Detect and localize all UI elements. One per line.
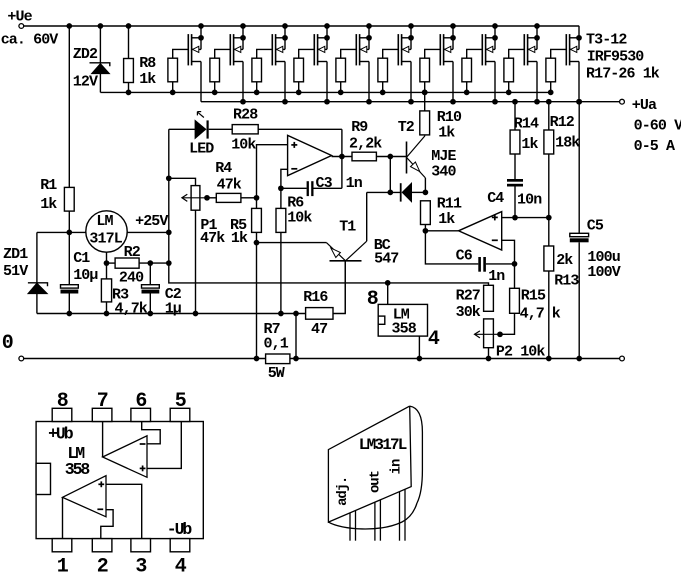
junction [366,99,372,105]
svg-text:R16: R16 [303,289,328,306]
junction [492,99,498,105]
junction [254,240,260,246]
pin stub bottom 1 [52,539,72,552]
svg-text:2: 2 [97,555,108,575]
wire +Ua rail [201,101,620,103]
svg-text:1k: 1k [521,136,538,153]
svg-text:C1: C1 [73,250,90,267]
gate resistor R22 [383,49,399,58]
svg-text:R28: R28 [233,107,258,124]
resistor R8 [128,26,130,59]
svg-text:47k: 47k [200,230,225,247]
junction [512,261,518,267]
junction [576,99,582,105]
junction [254,195,260,201]
junction [534,23,540,29]
junction [104,260,110,266]
MOSFET T6 IRF9530 [313,34,315,65]
node in [66,230,72,236]
resistor R11 [421,201,431,225]
junction [576,99,582,105]
regulator U2 LM317L [86,211,127,252]
wire pin 1 to output [62,497,64,538]
wire top rail +Ue [24,25,580,27]
junction [380,90,386,96]
wire inverting input [281,169,288,208]
gate resistor R24 [467,49,483,58]
resistor R3 [101,279,111,302]
potentiometer P1 [169,178,196,185]
svg-text:10n: 10n [517,191,542,208]
TO-92 right bulge [410,406,423,503]
wire pin 3 to noninverting [106,484,142,538]
svg-text:R15: R15 [521,288,546,305]
junction [546,215,552,221]
junction [66,23,72,29]
junction [293,311,299,317]
junction [282,35,288,41]
junction [546,99,552,105]
svg-text:0-60 V: 0-60 V [634,117,681,134]
capacitor C3 [281,187,307,189]
svg-text:358: 358 [65,460,91,479]
op-amp U1b [425,230,458,232]
wire pin 4 [418,336,420,358]
gate resistor R26 [551,49,567,58]
svg-text:3: 3 [135,555,146,575]
junction [296,90,302,96]
svg-text:358: 358 [392,321,417,338]
junction [512,215,518,221]
junction [98,23,104,29]
svg-text:R12: R12 [550,114,575,131]
op-amp A (pins 7,6,5) [103,436,147,478]
resistor R7 [266,354,290,364]
wire ground rail left [24,358,266,360]
transistor T1 BC547 [330,260,362,262]
svg-text:7: 7 [97,390,108,413]
junction [417,356,423,362]
pin stub bottom 4 [170,539,190,552]
junction [166,175,172,181]
wire sense rail [37,313,306,315]
junction [324,35,330,41]
wire to T1 collector node [389,157,391,193]
svg-text:1µ: 1µ [165,300,182,317]
junction [408,23,414,29]
IC package LM358 DIP-8 body [36,422,203,539]
junction [126,90,132,96]
junction [324,23,330,29]
node +25V [166,230,172,236]
capacitor C6 [425,231,478,264]
resistor R9 [352,152,376,161]
svg-text:100V: 100V [587,264,620,281]
svg-text:1n: 1n [346,175,363,192]
zener ZD1 [37,231,69,233]
terminal 0 [19,356,24,361]
junction [282,23,288,29]
svg-text:T3-12: T3-12 [586,31,627,48]
junction [147,311,153,317]
terminal 0 output [620,356,625,361]
transistor T2 MJE340 [406,142,408,174]
junction [282,99,288,105]
svg-text:8: 8 [57,390,68,413]
svg-text:4: 4 [428,328,440,351]
wire pin 2 to inverting [101,510,113,539]
svg-text:in: in [389,459,405,474]
junction [548,90,554,96]
wire noninverting input [257,145,288,209]
MOSFET T12 IRF9530 [565,34,567,65]
svg-text:k: k [552,306,561,323]
svg-text:5: 5 [175,390,186,413]
junction [278,311,284,317]
svg-text:1n: 1n [488,268,505,285]
resistor R4 [207,197,216,199]
junction [423,228,429,234]
junction [240,35,246,41]
junction [254,90,260,96]
wire pin 6 to inverting [142,422,161,444]
wire noninverting input row [502,217,549,219]
svg-text:R17-26 1k: R17-26 1k [586,65,660,82]
junction [339,154,345,160]
svg-text:10k: 10k [287,210,312,227]
capacitor C1 [68,232,70,284]
wire gate rail [100,91,550,93]
junction [492,35,498,41]
resistor R6 [276,208,286,232]
MOSFET T3 IRF9530 [187,34,189,65]
wire T1 base row [257,242,327,244]
MOSFET T4 IRF9530 [229,34,231,65]
junction [204,195,210,201]
svg-text:1k: 1k [139,71,156,88]
resistor R1 [64,187,74,211]
pin stub top 8 [52,408,72,421]
resistor R15 [514,264,516,288]
MOSFET T8 IRF9530 [397,34,399,65]
gate resistor R21 [341,49,357,58]
junction [534,35,540,41]
svg-text:30k: 30k [456,304,481,321]
capacitor C4 [507,179,523,182]
resistor R13 [548,218,550,246]
junction [506,90,512,96]
junction [408,99,414,105]
junction [408,35,414,41]
op-amp B (pins 1,2,3) [63,476,107,517]
TO-92 pin 3 [399,492,401,541]
MOSFET T5 IRF9530 [271,34,273,65]
junction [338,90,344,96]
svg-text:51V: 51V [3,263,28,280]
svg-text:4,7: 4,7 [520,306,544,323]
wire LM317 out [127,231,169,233]
terminal +Ua [620,99,625,104]
wire LM317 in [69,231,86,233]
junction [193,311,199,317]
svg-text:ZD2: ZD2 [73,46,98,63]
MOSFET T7 IRF9530 [355,34,357,65]
svg-text:R9: R9 [351,119,368,136]
pin stub top 5 [170,408,190,421]
svg-text:T1: T1 [339,219,356,236]
TO-92 pin 1 [349,513,351,541]
gate resistor R17 [173,49,189,58]
resistor R10 [424,92,426,111]
terminal +Ue [19,24,24,29]
svg-text:5W: 5W [268,365,285,382]
svg-text:1k: 1k [231,230,248,247]
svg-text:R8: R8 [139,55,156,72]
resistor R5 [252,208,262,232]
MOSFET T9 IRF9530 [439,34,441,65]
svg-text:10µ: 10µ [73,267,98,284]
junction [492,23,498,29]
svg-text:4: 4 [175,555,187,575]
svg-text:240: 240 [119,270,144,287]
junction [450,23,456,29]
wire LM317 adj [106,252,108,279]
svg-text:R1: R1 [40,177,57,194]
svg-text:18k: 18k [555,135,580,152]
svg-text:adj.: adj. [335,477,351,506]
svg-text:340: 340 [431,164,456,181]
wire R5 to ground rail [256,232,258,358]
svg-text:8: 8 [367,288,378,311]
junction [486,356,492,362]
svg-text:R4: R4 [215,160,232,177]
resistor R27 [484,285,494,311]
svg-text:IRF9530: IRF9530 [587,48,645,65]
zener ZD2 [99,26,101,63]
pin stub top 6 [131,408,151,421]
gate resistor R18 [215,49,231,58]
junction [366,23,372,29]
TO-92 pin 2 [374,502,376,541]
TO-92 belly [328,503,417,529]
junction [576,35,582,41]
svg-text:C4: C4 [487,190,504,207]
junction [423,190,429,196]
junction [450,99,456,105]
svg-text:317L: 317L [89,230,122,247]
wire pin 8 [387,283,389,305]
svg-text:547: 547 [374,251,398,268]
svg-text:1k: 1k [40,196,57,213]
svg-text:+Ue: +Ue [7,8,32,25]
junction [366,35,372,41]
junction [198,23,204,29]
pin stub bottom 2 [92,539,112,552]
capacitor C5 [578,102,580,234]
resistor R16 [306,308,333,320]
junction [324,99,330,105]
junction [576,356,582,362]
svg-text:47k: 47k [217,177,242,194]
svg-text:0,1: 0,1 [264,336,289,353]
junction [293,356,299,362]
gate resistor R19 [257,49,273,58]
svg-text:6: 6 [135,390,146,413]
IC U1 LM358 block [378,304,427,336]
resistor R2 [107,262,116,264]
svg-text:4,7k: 4,7k [115,300,148,317]
wire pin 5 to noninverting [147,422,181,469]
junction [387,154,393,160]
svg-text:C6: C6 [456,248,473,265]
junction [104,311,110,317]
junction [166,260,172,266]
junction [464,90,470,96]
pin stub bottom 3 [131,539,151,552]
svg-text:R27: R27 [456,288,480,305]
junction [534,99,540,105]
LED [169,128,195,130]
MOSFET T10 IRF9530 [481,34,483,65]
wire op-amp output [332,156,352,158]
op-amp U1a [288,135,332,175]
svg-text:LED: LED [189,141,214,158]
junction [497,331,503,337]
junction [387,190,393,196]
svg-text:T2: T2 [398,119,415,136]
junction [126,23,132,29]
junction [66,311,72,317]
IC package LM317L TO-92 face [328,406,411,522]
svg-text:LM317L: LM317L [359,436,407,454]
MOSFET T11 IRF9530 [523,34,525,65]
potentiometer P2 [484,319,494,348]
svg-text:0-5 A: 0-5 A [634,138,675,155]
junction [198,35,204,41]
resistor R12 [548,102,550,130]
junction [170,90,176,96]
junction [147,260,153,266]
resistor R28 [232,125,258,134]
junction [546,356,552,362]
svg-text:ZD1: ZD1 [3,246,28,263]
svg-text:1k: 1k [438,211,455,228]
gate resistor R25 [509,49,525,58]
svg-text:LM: LM [96,213,113,230]
svg-text:10k: 10k [231,137,256,154]
wire inverting input [502,240,515,264]
svg-text:2,2k: 2,2k [349,136,382,153]
wire pin 7 to output [102,422,104,458]
junction [240,23,246,29]
junction [450,35,456,41]
pin stub top 7 [92,408,112,421]
svg-text:C5: C5 [587,218,604,235]
wire feedback vertical [341,129,343,188]
diode D1 [367,191,401,193]
svg-text:+Ub: +Ub [48,425,74,444]
wire to R1 [68,26,70,187]
junction [385,280,391,286]
resistor R14 [514,102,516,130]
junction [240,99,246,105]
svg-text:12V: 12V [73,73,98,90]
svg-text:out: out [368,470,384,493]
svg-text:C3: C3 [316,175,333,192]
junction [254,356,260,362]
svg-text:47: 47 [311,321,327,338]
wire ground rail right [290,358,620,360]
gate resistor R20 [299,49,315,58]
wire LM358 supply rail [169,263,489,285]
svg-text:+Ua: +Ua [632,97,657,114]
svg-text:2k: 2k [556,252,573,269]
pin-1 notch [36,463,50,494]
wire +25V vertical [168,129,170,263]
gate resistor R23 [425,49,441,58]
svg-text:R14: R14 [514,115,539,132]
svg-text:ca. 60V: ca. 60V [1,32,59,49]
capacitor C2 [149,263,151,285]
junction [212,90,218,96]
svg-text:0: 0 [2,332,13,355]
svg-text:R13: R13 [554,273,579,290]
svg-text:1: 1 [57,555,69,575]
wire sense to ground [295,314,297,359]
junction [512,99,518,105]
wire R16 to T1 emitter [333,261,345,314]
svg-text:1k: 1k [438,124,455,141]
svg-text:R2: R2 [124,244,141,261]
svg-text:-Ub: -Ub [167,520,193,539]
svg-text:P2 10k: P2 10k [496,344,546,361]
junction [422,90,428,96]
junction [422,90,428,96]
svg-text:+25V: +25V [135,213,168,230]
junction [278,185,284,191]
